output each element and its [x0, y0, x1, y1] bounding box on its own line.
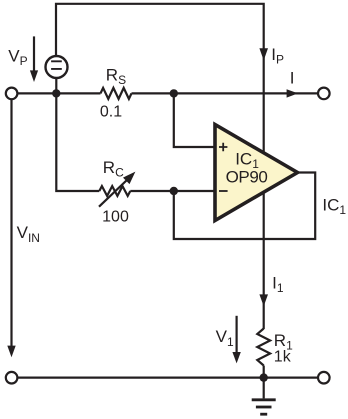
minus pin symbol [219, 190, 228, 192]
node source junction [52, 89, 60, 97]
svg-text:RS: RS [106, 65, 126, 87]
arrow VIN (down) [7, 346, 15, 358]
wire top rail from source to IP branch [56, 4, 264, 153]
resistor R1 [257, 329, 270, 366]
svg-text:VIN: VIN [17, 223, 40, 245]
terminal input bottom-left [6, 372, 18, 384]
svg-text:VP: VP [8, 47, 27, 69]
wire bottom rail [17, 377, 318, 379]
svg-text:RC: RC [103, 158, 124, 180]
arrow I1 (down, on wire) [259, 294, 268, 306]
node ground junction [260, 373, 268, 381]
wire plus input [174, 93, 215, 147]
ground [252, 378, 276, 415]
terminal input top-left [6, 88, 18, 100]
svg-text:I1: I1 [272, 273, 284, 295]
arrow IP (down, on wire) [259, 48, 268, 60]
node minus-input junction [170, 187, 178, 195]
terminal output bottom-right [318, 372, 330, 384]
svg-text:1k: 1k [274, 348, 292, 365]
svg-text:IC1: IC1 [322, 196, 346, 218]
wire R1 to ground node [263, 366, 265, 378]
wire output and feedback loop [174, 173, 315, 240]
svg-text:100: 100 [102, 209, 129, 226]
svg-text:V1: V1 [216, 327, 234, 349]
resistor RS [101, 88, 132, 99]
terminal output top-right [318, 88, 330, 100]
wire left branch to RC [56, 93, 99, 191]
wire source bottom to node [55, 78, 57, 94]
wire RC to minus node [130, 190, 174, 192]
svg-text:0.1: 0.1 [100, 104, 122, 121]
wire left VIN line [10, 99, 12, 346]
op-amp IC1 OP90 triangle [215, 125, 298, 221]
arrow variable resistor RC [99, 172, 135, 207]
arrow VP (down) [30, 36, 38, 82]
arrow I (right) [287, 89, 298, 97]
node plus-input branch [170, 89, 178, 97]
svg-text:I: I [290, 68, 295, 87]
arrow V1 (down) [232, 316, 240, 364]
wire top-left terminal to RS [17, 92, 100, 94]
resistor RC [99, 186, 130, 196]
source VP (circle with = sign) [46, 56, 68, 78]
svg-text:OP90: OP90 [226, 168, 268, 187]
wire minus input [174, 190, 215, 192]
wire RS to output terminal [132, 92, 319, 94]
wire op-amp V- pin down to R1 [263, 193, 265, 329]
plus pin symbol [219, 143, 227, 151]
svg-text:IP: IP [271, 45, 284, 67]
